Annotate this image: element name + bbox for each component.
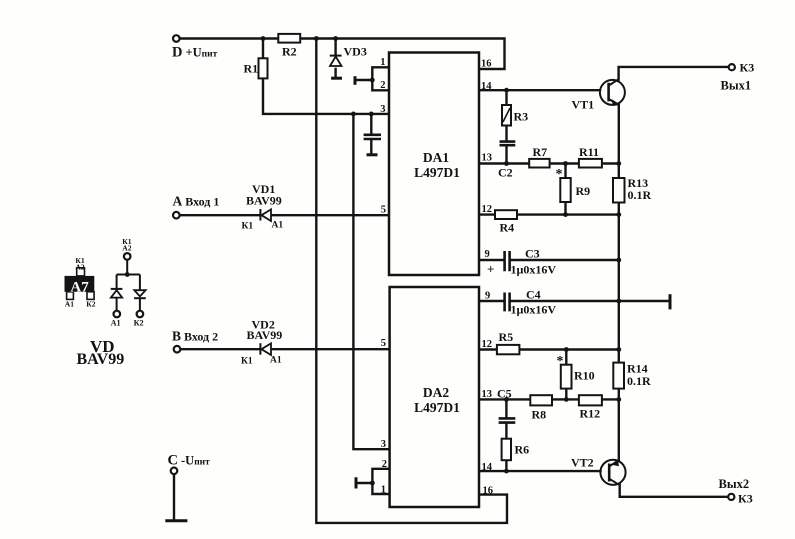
svg-text:BAV99: BAV99	[246, 194, 282, 208]
svg-text:R9: R9	[576, 184, 591, 198]
svg-text:C4: C4	[526, 288, 541, 302]
svg-text:R11: R11	[579, 145, 599, 159]
svg-text:BAV99: BAV99	[77, 351, 125, 368]
svg-text:13: 13	[482, 389, 493, 400]
svg-text:14: 14	[481, 81, 492, 92]
svg-text:R4: R4	[500, 221, 515, 235]
svg-text:0.1R: 0.1R	[627, 374, 651, 388]
svg-text:А1: А1	[111, 318, 121, 327]
svg-text:К1: К1	[241, 357, 253, 367]
svg-text:DA2: DA2	[423, 385, 449, 400]
svg-text:C2: C2	[498, 166, 513, 180]
svg-text:А2: А2	[75, 262, 84, 271]
svg-text:1µ0х16V: 1µ0х16V	[511, 263, 557, 277]
svg-text:А1: А1	[65, 300, 74, 309]
svg-text:А7: А7	[70, 280, 89, 296]
svg-text:Вых2: Вых2	[719, 477, 750, 491]
svg-text:VD3: VD3	[344, 45, 367, 59]
svg-text:2: 2	[382, 459, 387, 470]
svg-text:16: 16	[481, 59, 492, 70]
svg-text:К3: К3	[740, 61, 755, 75]
svg-text:2: 2	[380, 80, 385, 91]
svg-text:Вых1: Вых1	[721, 79, 752, 93]
svg-text:В Вход 2: В Вход 2	[172, 329, 218, 344]
svg-text:13: 13	[482, 153, 493, 164]
svg-text:1: 1	[381, 485, 386, 496]
svg-text:BAV99: BAV99	[247, 328, 283, 342]
svg-text:R3: R3	[514, 110, 529, 124]
svg-text:5: 5	[381, 338, 386, 349]
svg-text:C3: C3	[525, 247, 540, 261]
svg-text:9: 9	[485, 291, 490, 302]
svg-text:12: 12	[482, 339, 493, 350]
svg-text:1µ0х16V: 1µ0х16V	[511, 303, 557, 317]
svg-text:R1: R1	[244, 62, 259, 76]
svg-text:L497D1: L497D1	[414, 400, 460, 415]
svg-text:VT2: VT2	[571, 456, 594, 470]
svg-text:К2: К2	[134, 318, 144, 327]
svg-text:R8: R8	[532, 408, 547, 422]
svg-text:R7: R7	[533, 145, 548, 159]
svg-text:VT1: VT1	[572, 98, 595, 112]
svg-text:1: 1	[380, 57, 385, 68]
svg-text:*: *	[556, 167, 563, 182]
svg-text:DA1: DA1	[423, 150, 449, 165]
svg-text:0.1R: 0.1R	[628, 188, 652, 202]
svg-text:R5: R5	[499, 330, 514, 344]
svg-text:9: 9	[485, 249, 490, 260]
svg-text:А1: А1	[270, 356, 282, 366]
svg-text:А1: А1	[272, 221, 284, 231]
svg-text:*: *	[557, 354, 564, 369]
svg-text:А2: А2	[122, 243, 131, 252]
svg-text:К2: К2	[86, 300, 96, 309]
svg-text:К1: К1	[242, 222, 254, 232]
svg-text:А Вход 1: А Вход 1	[173, 194, 220, 209]
svg-text:R10: R10	[574, 369, 595, 383]
svg-text:C5: C5	[497, 387, 512, 401]
svg-text:R12: R12	[580, 407, 601, 421]
svg-text:16: 16	[483, 486, 494, 497]
svg-text:R2: R2	[282, 45, 297, 59]
svg-text:К3: К3	[738, 492, 753, 506]
svg-text:+: +	[487, 262, 494, 277]
svg-text:14: 14	[482, 462, 493, 473]
svg-text:3: 3	[381, 439, 386, 450]
svg-text:12: 12	[482, 204, 493, 215]
svg-text:R6: R6	[515, 443, 530, 457]
svg-text:L497D1: L497D1	[414, 165, 460, 180]
svg-text:3: 3	[380, 104, 385, 115]
svg-text:5: 5	[381, 205, 386, 216]
